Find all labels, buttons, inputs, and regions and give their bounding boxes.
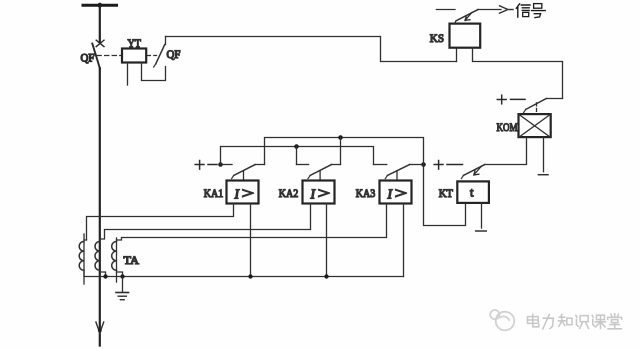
busbar <box>83 3 117 8</box>
minus terminal KT <box>476 230 487 232</box>
relay KA1 <box>204 181 259 204</box>
wire feeder lower <box>99 68 101 345</box>
relay KA3 <box>356 181 412 204</box>
svg-text:KS: KS <box>430 31 444 45</box>
svg-text:KA1: KA1 <box>204 186 224 200</box>
contact KA1 <box>221 165 265 181</box>
current transformer TA phase B <box>95 242 106 277</box>
wire KOM right lead <box>543 138 545 172</box>
wire YT left lead <box>127 63 129 86</box>
svg-text:KA3: KA3 <box>356 186 376 200</box>
svg-text:KOM: KOM <box>497 120 518 134</box>
svg-text:YT: YT <box>128 36 142 50</box>
svg-text:QF: QF <box>167 47 181 61</box>
node plus KOM row <box>497 95 525 104</box>
svg-text:QF: QF <box>81 51 95 65</box>
feeder arrow <box>96 322 104 333</box>
contact KT (delayed) <box>461 165 485 179</box>
wire KA1 right lead <box>250 204 252 277</box>
wire KA2 left lead to TA2 <box>100 204 311 240</box>
wire YT right lead to QF aux <box>142 63 166 81</box>
relay KA2 <box>279 181 335 204</box>
svg-text:KT: KT <box>439 186 454 200</box>
svg-text:I: I <box>387 186 394 201</box>
ground <box>116 277 129 300</box>
wire KA3 left lead to TA3 <box>117 204 387 241</box>
wire KA output down to KT coil <box>424 165 466 226</box>
wire KOM left lead to KT contact <box>485 138 527 165</box>
wire KA1 left lead to TA1 <box>87 204 234 241</box>
breaker QF <box>81 40 105 68</box>
watermark text 电力知识课堂 <box>528 314 622 329</box>
wire KA3 right lead <box>403 204 405 277</box>
svg-text:I: I <box>310 186 317 201</box>
signal arrow and label <box>478 6 513 13</box>
node junction KA output <box>421 162 426 167</box>
svg-text:>: > <box>242 186 255 202</box>
contact KA3 <box>374 165 421 181</box>
wire KS left lead <box>456 48 458 62</box>
wire top long run to KS <box>166 37 457 62</box>
relay KOM <box>497 114 551 137</box>
wire feeder upper <box>99 5 101 42</box>
svg-text:TA: TA <box>124 253 140 267</box>
contact KS (signal contact) <box>436 10 478 25</box>
svg-text:t: t <box>470 186 474 200</box>
contact QF aux <box>154 37 181 68</box>
current transformer TA phase C <box>112 238 140 282</box>
node plus KT row <box>434 161 462 170</box>
wire KS right lead and run to KOM contact <box>473 48 563 99</box>
trip coil YT <box>122 36 146 62</box>
svg-text:I: I <box>234 186 241 201</box>
signal relay KS <box>430 24 480 48</box>
wire KT right lead <box>481 203 483 228</box>
current transformer TA phase A <box>79 234 86 284</box>
wire TA star point (bottom common) <box>84 270 404 278</box>
mechanical dashed link QF-YT-QFaux <box>97 55 157 57</box>
watermark logo <box>490 310 514 330</box>
svg-text:>: > <box>395 186 408 202</box>
contact KOM (self-hold) <box>524 99 563 115</box>
wire bus B (contact outputs) <box>265 135 424 164</box>
time relay KT <box>439 181 489 203</box>
wire KA2 right lead <box>326 204 328 277</box>
wire bus A (plus distribution) <box>221 144 374 164</box>
label 信号 (signal) drawn strokes <box>516 4 545 18</box>
svg-text:KA2: KA2 <box>279 186 299 200</box>
contact KA2 <box>297 165 341 181</box>
node plus KA row <box>195 161 223 170</box>
minus terminal KOM <box>538 174 548 176</box>
svg-text:>: > <box>318 186 331 202</box>
